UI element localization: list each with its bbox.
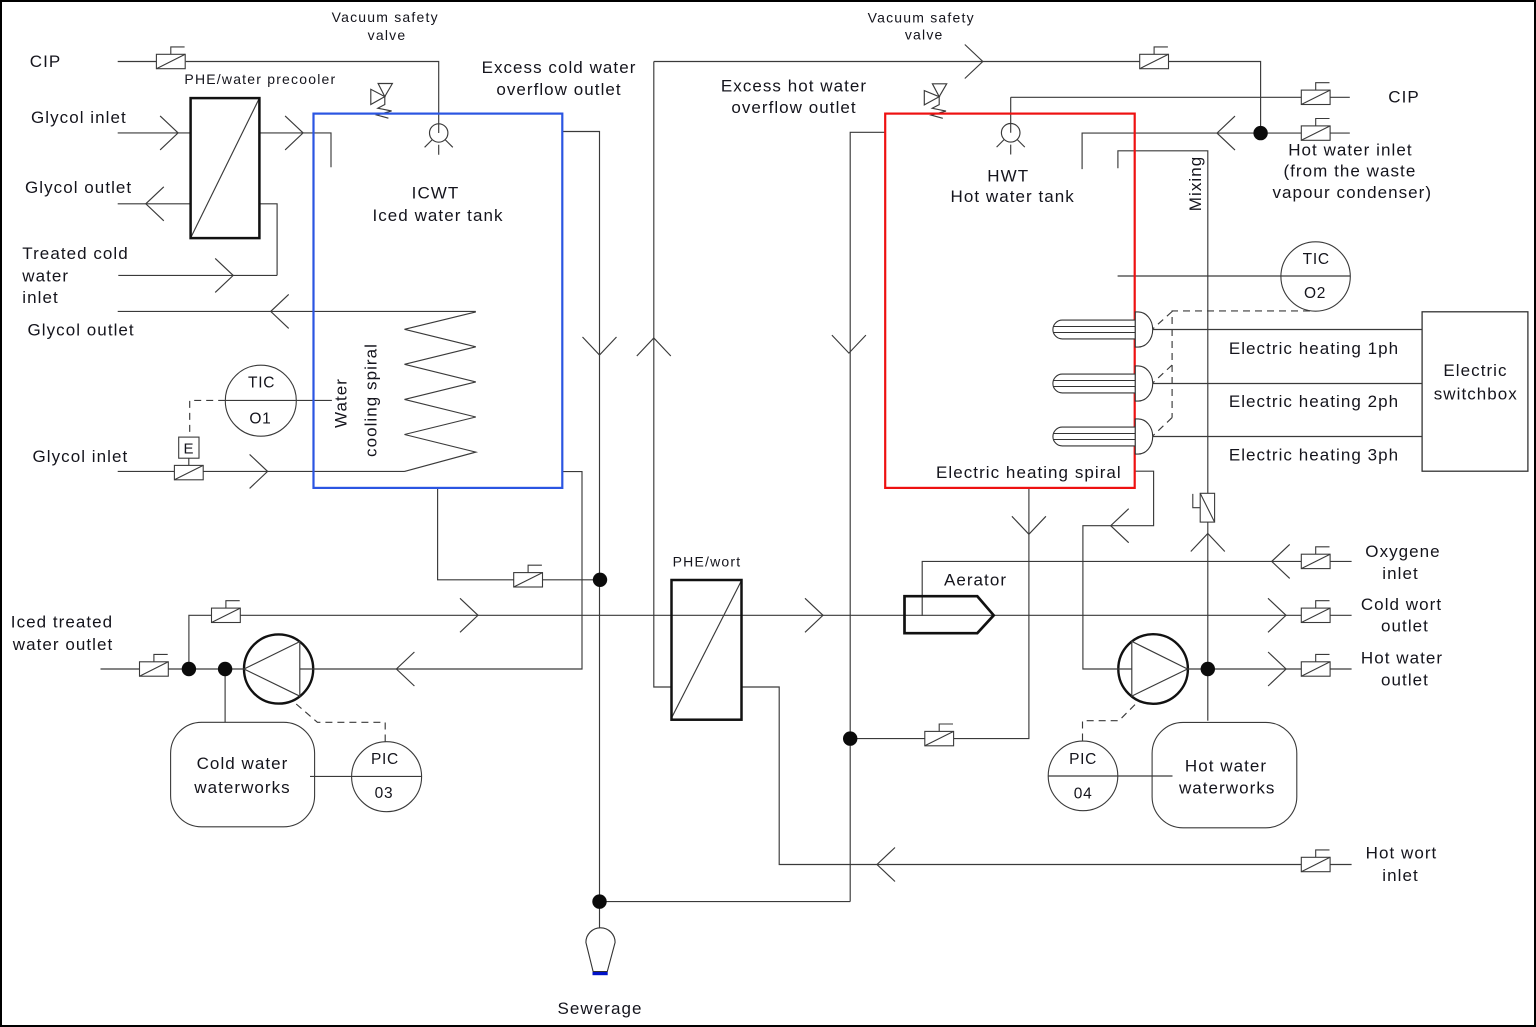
svg-text:PHE/water precooler: PHE/water precooler — [184, 71, 336, 87]
svg-text:vapour condenser): vapour condenser) — [1272, 183, 1432, 202]
svg-text:TIC: TIC — [1303, 251, 1330, 268]
svg-text:Oxygene: Oxygene — [1365, 542, 1440, 561]
svg-text:Cold wort: Cold wort — [1361, 595, 1442, 614]
svg-text:PIC: PIC — [371, 751, 399, 768]
svg-text:O1: O1 — [249, 411, 271, 428]
svg-text:PHE/wort: PHE/wort — [673, 554, 742, 570]
svg-text:Hot wort: Hot wort — [1366, 844, 1438, 863]
svg-text:waterworks: waterworks — [193, 778, 290, 797]
svg-text:inlet: inlet — [1382, 866, 1418, 885]
svg-text:Vacuum safety: Vacuum safety — [868, 9, 975, 25]
svg-text:switchbox: switchbox — [1434, 385, 1518, 404]
svg-text:Hot water: Hot water — [1185, 756, 1267, 775]
svg-text:Electric heating 2ph: Electric heating 2ph — [1229, 392, 1399, 411]
svg-text:Water: Water — [332, 378, 351, 428]
svg-text:Glycol inlet: Glycol inlet — [31, 108, 127, 127]
svg-text:Hot water: Hot water — [1361, 649, 1443, 668]
svg-text:E: E — [183, 441, 194, 458]
svg-text:cooling spiral: cooling spiral — [362, 343, 381, 457]
svg-text:O2: O2 — [1304, 285, 1326, 302]
svg-text:(from the waste: (from the waste — [1283, 162, 1416, 181]
svg-text:Glycol outlet: Glycol outlet — [25, 178, 132, 197]
svg-text:Electric heating 3ph: Electric heating 3ph — [1229, 445, 1399, 464]
svg-text:Excess cold water: Excess cold water — [482, 58, 637, 77]
svg-text:inlet: inlet — [22, 288, 58, 307]
svg-text:HWT: HWT — [987, 166, 1029, 185]
svg-text:Hot water tank: Hot water tank — [951, 187, 1075, 206]
svg-text:valve: valve — [368, 27, 407, 43]
svg-text:04: 04 — [1074, 786, 1093, 803]
svg-text:Iced treated: Iced treated — [11, 613, 113, 632]
svg-text:Glycol outlet: Glycol outlet — [28, 321, 135, 340]
svg-text:Cold water: Cold water — [197, 754, 289, 773]
svg-text:Electric heating 1ph: Electric heating 1ph — [1229, 339, 1399, 358]
svg-text:ICWT: ICWT — [412, 184, 460, 203]
svg-text:Excess hot water: Excess hot water — [721, 77, 867, 96]
svg-text:PIC: PIC — [1069, 751, 1097, 768]
svg-text:valve: valve — [905, 27, 944, 43]
svg-text:Electric heating spiral: Electric heating spiral — [936, 463, 1122, 482]
svg-text:Glycol inlet: Glycol inlet — [33, 447, 129, 466]
svg-text:Sewerage: Sewerage — [558, 999, 643, 1018]
svg-text:overflow outlet: overflow outlet — [731, 98, 856, 117]
svg-text:overflow outlet: overflow outlet — [496, 80, 621, 99]
svg-text:CIP: CIP — [30, 52, 62, 71]
svg-text:Iced water tank: Iced water tank — [372, 206, 503, 225]
svg-text:inlet: inlet — [1382, 564, 1418, 583]
svg-text:03: 03 — [375, 785, 394, 802]
svg-text:outlet: outlet — [1381, 616, 1429, 635]
svg-text:CIP: CIP — [1388, 88, 1420, 107]
svg-text:waterworks: waterworks — [1178, 779, 1275, 798]
svg-text:water: water — [21, 267, 69, 286]
svg-text:Treated cold: Treated cold — [22, 244, 128, 263]
svg-text:Electric: Electric — [1443, 361, 1507, 380]
svg-text:outlet: outlet — [1381, 670, 1429, 689]
svg-text:water outlet: water outlet — [12, 635, 113, 654]
svg-text:Vacuum safety: Vacuum safety — [332, 9, 439, 25]
svg-text:Hot water inlet: Hot water inlet — [1288, 140, 1412, 159]
svg-text:Aerator: Aerator — [944, 570, 1007, 589]
svg-text:TIC: TIC — [248, 375, 275, 392]
svg-text:Mixing: Mixing — [1186, 156, 1205, 211]
